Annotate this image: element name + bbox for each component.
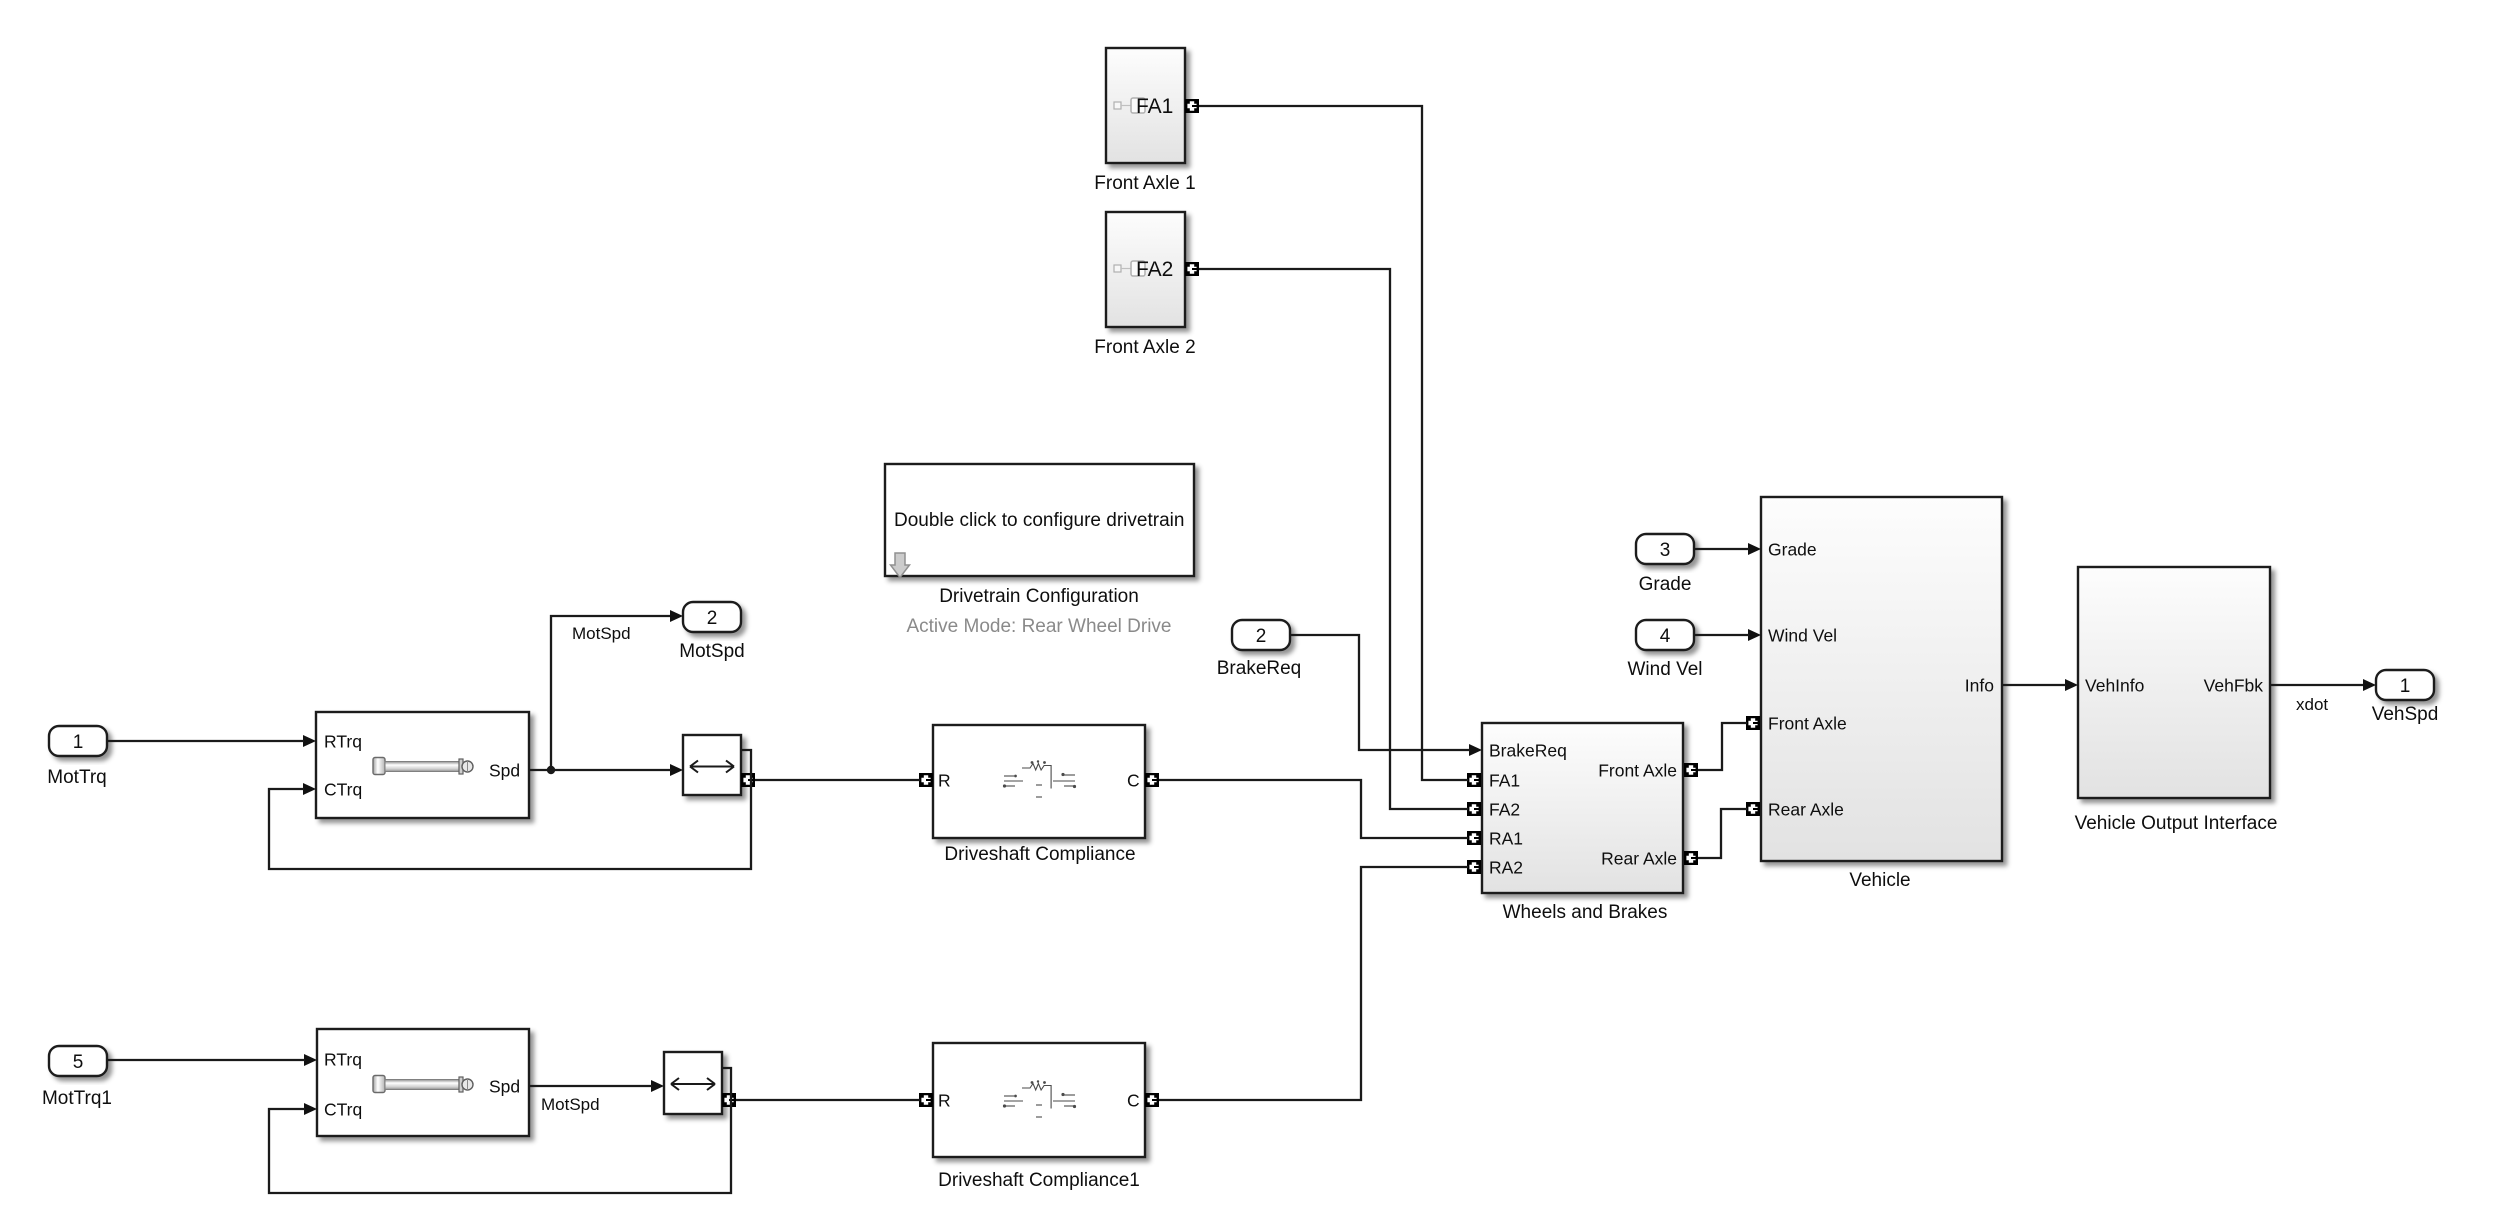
- wire C (Driveshaft Compliance) to RA1: [1159, 780, 1468, 838]
- arrowhead Wind Vel in: [1748, 629, 1761, 641]
- wire Front Axle 1 to FA1: [1199, 106, 1468, 780]
- svg-text:MotSpd: MotSpd: [572, 624, 631, 643]
- wire W&B Rear Axle to Vehicle Rear Axle: [1698, 809, 1747, 858]
- inport 5 MotTrq1: [49, 1046, 107, 1076]
- wire Front Axle 2 to FA2: [1199, 269, 1468, 809]
- svg-text:1: 1: [73, 732, 84, 753]
- wire MotSpd branch to outport 2: [551, 616, 671, 770]
- block Rotational interface 1 (<->): [683, 735, 741, 795]
- svg-text:Vehicle Output Interface: Vehicle Output Interface: [2075, 813, 2278, 834]
- svg-text:BrakeReq: BrakeReq: [1217, 658, 1302, 679]
- block Driveshaft Compliance1: [933, 1043, 1145, 1157]
- block Motor Shaft 1 (RTrq/CTrq/Spd): [316, 712, 529, 818]
- arrowhead into interface 1: [670, 764, 683, 776]
- svg-text:BrakeReq: BrakeReq: [1489, 741, 1567, 761]
- svg-text:Wind Vel: Wind Vel: [1628, 659, 1703, 680]
- svg-text:RA2: RA2: [1489, 858, 1523, 878]
- port FA1 in (W&B): [1467, 773, 1481, 787]
- block Front Axle 1: [1106, 48, 1185, 163]
- port FA1 out (Front Axle 1): [1185, 99, 1199, 113]
- arrowhead into VehSpd: [2363, 679, 2376, 691]
- wire Wind Vel to Vehicle: [1694, 634, 1749, 636]
- svg-text:Front Axle 1: Front Axle 1: [1094, 173, 1195, 194]
- arrowhead BrakeReq in: [1469, 744, 1482, 756]
- wire C (Driveshaft Compliance1) to RA2: [1159, 867, 1468, 1100]
- svg-text:CTrq: CTrq: [324, 1100, 362, 1120]
- port R (Driveshaft Compliance): [919, 773, 933, 787]
- svg-text:Wheels and Brakes: Wheels and Brakes: [1503, 902, 1668, 923]
- svg-text:R: R: [938, 1091, 951, 1111]
- svg-text:C: C: [1127, 1091, 1140, 1111]
- svg-text:Drivetrain Configuration: Drivetrain Configuration: [939, 586, 1139, 607]
- svg-text:Rear Axle: Rear Axle: [1601, 849, 1677, 869]
- wire W&B Front Axle to Vehicle Front Axle: [1698, 723, 1747, 770]
- block Vehicle: [1761, 497, 2002, 861]
- svg-text:Driveshaft Compliance: Driveshaft Compliance: [944, 844, 1135, 865]
- svg-text:Vehicle: Vehicle: [1849, 870, 1910, 891]
- inport 3 Grade: [1636, 534, 1694, 564]
- svg-text:Spd: Spd: [489, 761, 520, 781]
- outport 1 VehSpd: [2376, 670, 2434, 700]
- wire BrakeReq to W&B: [1290, 635, 1470, 750]
- arrowhead RTrq 2: [304, 1054, 317, 1066]
- wire interface 2 to R (Driveshaft Compliance1): [736, 1099, 920, 1101]
- wire feedback interface 1 to CTrq: [269, 750, 751, 869]
- block Vehicle Output Interface: [2078, 567, 2270, 798]
- arrowhead RTrq 1: [303, 735, 316, 747]
- port RA2 in (W&B): [1467, 860, 1481, 874]
- port FA2 out (Front Axle 2): [1185, 262, 1199, 276]
- svg-text:Front Axle: Front Axle: [1598, 761, 1677, 781]
- port C (Driveshaft Compliance): [1145, 773, 1159, 787]
- svg-text:2: 2: [1256, 626, 1267, 647]
- wire MotTrq to RTrq: [107, 740, 304, 742]
- svg-text:Grade: Grade: [1768, 540, 1817, 560]
- svg-text:Active Mode: Rear Wheel Drive: Active Mode: Rear Wheel Drive: [906, 616, 1171, 637]
- svg-text:Info: Info: [1965, 676, 1994, 696]
- port Rear Axle out (W&B): [1684, 851, 1698, 865]
- svg-text:R: R: [938, 771, 951, 791]
- svg-text:VehFbk: VehFbk: [2204, 676, 2264, 696]
- svg-text:MotTrq: MotTrq: [47, 767, 106, 788]
- svg-text:MotSpd: MotSpd: [679, 641, 744, 662]
- svg-text:Driveshaft Compliance1: Driveshaft Compliance1: [938, 1170, 1140, 1191]
- svg-text:1: 1: [2400, 676, 2411, 697]
- wire MotTrq1 to RTrq 2: [107, 1059, 305, 1061]
- port interface 1 out: [741, 773, 755, 787]
- svg-text:RA1: RA1: [1489, 829, 1523, 849]
- svg-text:VehSpd: VehSpd: [2372, 704, 2439, 725]
- svg-text:MotTrq1: MotTrq1: [42, 1088, 112, 1109]
- block Drivetrain Configuration: [885, 464, 1194, 578]
- inport 1 MotTrq: [49, 726, 107, 756]
- port Front Axle out (W&B): [1684, 763, 1698, 777]
- arrowhead into interface 2: [651, 1080, 664, 1092]
- block Wheels and Brakes: [1482, 723, 1683, 893]
- outport 2 MotSpd: [683, 602, 741, 632]
- svg-text:Double click to configure driv: Double click to configure drivetrain: [894, 510, 1184, 531]
- inport 4 Wind Vel: [1636, 620, 1694, 650]
- wire feedback interface 2 to CTrq 2: [269, 1068, 731, 1193]
- wire interface 1 to R (Driveshaft Compliance): [755, 779, 920, 781]
- port RA1 in (W&B): [1467, 831, 1481, 845]
- svg-text:FA2: FA2: [1489, 800, 1520, 820]
- svg-text:FA2: FA2: [1136, 258, 1173, 281]
- svg-text:CTrq: CTrq: [324, 780, 362, 800]
- svg-text:MotSpd: MotSpd: [541, 1095, 600, 1114]
- svg-text:4: 4: [1660, 626, 1671, 647]
- arrowhead CTrq 2: [304, 1103, 317, 1115]
- svg-text:VehInfo: VehInfo: [2085, 676, 2144, 696]
- svg-text:Grade: Grade: [1639, 574, 1692, 595]
- wire Spd2 to interface 2: [529, 1085, 652, 1087]
- port interface 2 out: [722, 1093, 736, 1107]
- svg-text:RTrq: RTrq: [324, 732, 362, 752]
- arrowhead CTrq 1: [303, 783, 316, 795]
- svg-text:FA1: FA1: [1489, 771, 1520, 791]
- svg-text:Wind Vel: Wind Vel: [1768, 626, 1837, 646]
- port Rear Axle in (Vehicle): [1746, 802, 1760, 816]
- svg-text:RTrq: RTrq: [324, 1050, 362, 1070]
- arrowhead into outport MotSpd: [670, 610, 683, 622]
- svg-text:FA1: FA1: [1136, 95, 1173, 118]
- block Rotational interface 2 (<->): [664, 1052, 722, 1114]
- svg-text:Spd: Spd: [489, 1077, 520, 1097]
- svg-text:Front Axle: Front Axle: [1768, 714, 1847, 734]
- wire Spd1 to interface 1: [529, 769, 671, 771]
- block Motor Shaft 2 (RTrq/CTrq/Spd): [317, 1029, 529, 1136]
- port C (Driveshaft Compliance1): [1145, 1093, 1159, 1107]
- svg-text:C: C: [1127, 771, 1140, 791]
- wire Grade to Vehicle: [1694, 548, 1749, 550]
- port Front Axle in (Vehicle): [1746, 716, 1760, 730]
- arrowhead Grade in: [1748, 543, 1761, 555]
- block Driveshaft Compliance: [933, 725, 1145, 838]
- port FA2 in (W&B): [1467, 802, 1481, 816]
- svg-text:xdot: xdot: [2296, 695, 2328, 714]
- wire Info to VehInfo: [2002, 684, 2066, 686]
- inport 2 BrakeReq: [1232, 620, 1290, 650]
- port R (Driveshaft Compliance1): [919, 1093, 933, 1107]
- junction dot Spd1: [547, 766, 555, 774]
- arrowhead VehInfo in: [2065, 679, 2078, 691]
- wire VehFbk to VehSpd: [2270, 684, 2364, 686]
- svg-text:2: 2: [707, 608, 718, 629]
- svg-text:Front Axle 2: Front Axle 2: [1094, 337, 1195, 358]
- svg-text:3: 3: [1660, 540, 1671, 561]
- block Front Axle 2: [1106, 212, 1185, 327]
- svg-text:Rear Axle: Rear Axle: [1768, 800, 1844, 820]
- svg-text:5: 5: [73, 1052, 84, 1073]
